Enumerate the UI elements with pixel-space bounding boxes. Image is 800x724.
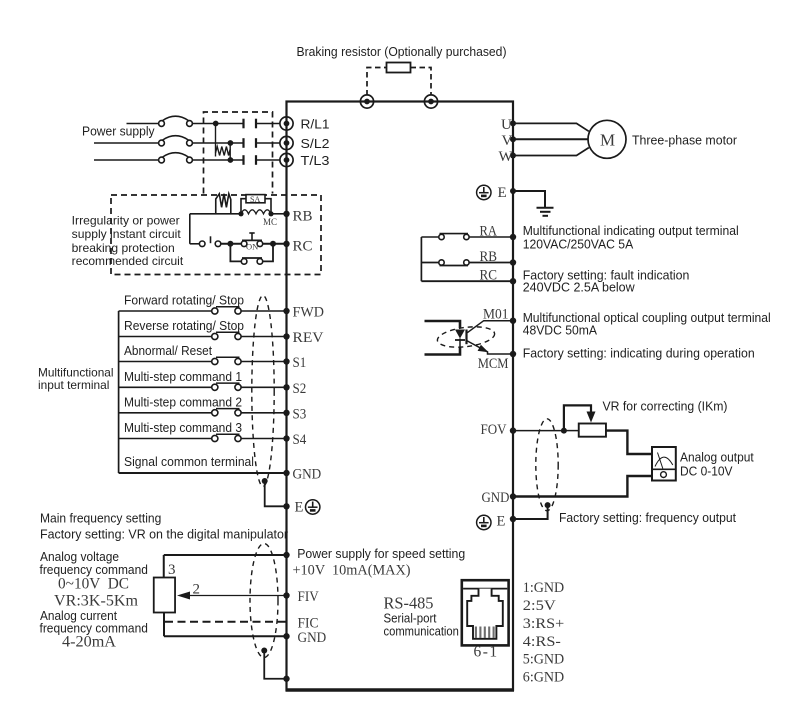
wire pot top [163, 555, 165, 578]
node coil left [238, 211, 243, 216]
svg-text:S4: S4 [293, 432, 307, 448]
wire RB out [421, 262, 513, 264]
wire RA [421, 236, 513, 238]
terminal RC out dot [510, 278, 516, 284]
irregularity protection dashed box [111, 195, 321, 275]
terminal R/L1 [280, 117, 293, 130]
wire RC start [190, 243, 200, 245]
terminal REV [283, 333, 289, 339]
svg-text:Factory setting: frequency out: Factory setting: frequency output [559, 511, 737, 525]
terminal U dot [510, 120, 516, 126]
switch FWD [119, 307, 287, 314]
wire shield FOV to E [513, 505, 548, 519]
breaker pole 2 [159, 136, 193, 146]
wire dashed braking left [367, 68, 387, 96]
svg-text:Abnormal/ Reset: Abnormal/ Reset [124, 344, 212, 358]
motor M [588, 120, 626, 158]
svg-text:FWD: FWD [293, 305, 325, 321]
svg-text:RA: RA [480, 224, 498, 240]
svg-text:R/L1: R/L1 [301, 118, 330, 132]
wire dashed braking right [411, 68, 432, 96]
svg-text:Irregularity or power: Irregularity or power [72, 214, 180, 228]
svg-text:2:5V: 2:5V [523, 598, 556, 614]
svg-text:RC: RC [293, 239, 313, 255]
svg-text:4:RS-: 4:RS- [523, 634, 561, 650]
svg-text:E: E [295, 500, 304, 516]
contactor MC contact 2 [244, 138, 257, 148]
svg-text:Multi-step command 1: Multi-step command 1 [124, 370, 242, 384]
phototransistor bar [465, 330, 467, 345]
node RC right junction [270, 241, 276, 247]
svg-text:Signal common terminal: Signal common terminal [124, 455, 254, 469]
protective earth symbol bottom right [477, 515, 491, 529]
contactor MC contact 1 [244, 119, 257, 129]
node RC left junction [227, 241, 233, 247]
wire phase R to contact [192, 123, 242, 125]
svg-text:4-20mA: 4-20mA [62, 634, 117, 651]
relay output bracket wire [420, 237, 422, 281]
svg-text:U: U [501, 117, 512, 133]
contactor MC contact 3 [244, 155, 257, 165]
svg-text:VR:3K-5Km: VR:3K-5Km [54, 593, 138, 610]
optocoupler texts [523, 311, 771, 361]
breaker pole 1 [159, 116, 193, 126]
VR adjust arrowhead [587, 412, 596, 423]
terminal PR (braking right) [424, 95, 437, 108]
svg-text:Multifunctional indicating out: Multifunctional indicating output termin… [523, 224, 739, 238]
svg-text:Serial-port: Serial-port [384, 612, 437, 626]
svg-text:communication: communication [384, 625, 459, 639]
wire contact2 to S/L2 [256, 142, 280, 144]
wire E to earth [513, 191, 545, 208]
resistor snubber [216, 147, 231, 156]
svg-text:V: V [502, 133, 513, 149]
terminal FWD [283, 308, 289, 314]
node S junction [228, 140, 234, 146]
svg-text:FIV: FIV [298, 589, 319, 605]
wire V [513, 138, 588, 140]
svg-text:Multi-step command 3: Multi-step command 3 [124, 421, 242, 435]
terminal V dot [510, 136, 516, 142]
contact RA (NO) [439, 234, 469, 240]
svg-text:MCM: MCM [478, 356, 509, 372]
svg-text:Three-phase motor: Three-phase motor [632, 134, 737, 148]
svg-text:+10V 10mA(MAX): +10V 10mA(MAX) [293, 563, 411, 579]
terminal S/L2 [280, 136, 293, 149]
svg-text:1:GND: 1:GND [523, 580, 565, 596]
contact MC holding (NO) [241, 258, 262, 264]
svg-text:0~10V DC: 0~10V DC [58, 576, 129, 593]
wire pot bottom [163, 613, 165, 637]
svg-text:S2: S2 [293, 381, 307, 397]
optocoupler dashed ellipse [436, 324, 496, 350]
wire FIV wiper arrow [189, 595, 287, 597]
input box left bus [118, 311, 120, 473]
terminal W dot [510, 153, 516, 159]
contactor dashed box [204, 112, 273, 194]
svg-text:48VDC 50mA: 48VDC 50mA [523, 324, 598, 338]
switch REV [119, 332, 287, 339]
svg-text:Braking resistor (Optionally p: Braking resistor (Optionally purchased) [297, 45, 507, 59]
terminal MCM dot [510, 351, 516, 357]
svg-text:RC: RC [480, 268, 498, 284]
svg-text:Reverse rotating/ Stop: Reverse rotating/ Stop [124, 319, 244, 333]
shield ellipse FOV [536, 419, 558, 511]
terminal S3 [283, 410, 289, 416]
wire ON to RC [263, 243, 287, 245]
switch S2 [119, 383, 287, 390]
svg-text:240VDC 2.5A below: 240VDC 2.5A below [523, 281, 636, 295]
svg-text:E: E [497, 513, 506, 529]
wire common vertical [189, 214, 191, 244]
svg-text:Power supply for speed setting: Power supply for speed setting [297, 547, 465, 561]
svg-text:6:GND: 6:GND [523, 670, 565, 686]
svg-text:6-1: 6-1 [474, 644, 499, 661]
wire MC coil left [190, 213, 241, 215]
node coil right [268, 211, 273, 216]
RJ11 pins [476, 627, 494, 639]
svg-text:T/L3: T/L3 [301, 154, 330, 168]
node shield analog [261, 648, 267, 654]
LED lead bottom [425, 347, 461, 355]
multifunctional input terminal label [38, 366, 114, 393]
svg-text:S1: S1 [293, 355, 307, 371]
wire U [513, 123, 589, 131]
wire shield analog to box [264, 651, 286, 679]
wire M01 [467, 321, 513, 333]
RS-485 labels [384, 594, 459, 639]
terminal RA dot [510, 234, 516, 240]
node shield input [262, 478, 268, 484]
svg-text:Main frequency setting: Main frequency setting [40, 512, 161, 526]
terminal +10V [283, 552, 289, 558]
terminal E left [283, 503, 289, 509]
svg-text:MC: MC [263, 217, 277, 227]
meter analog output [652, 447, 676, 481]
svg-text:120VAC/250VAC 5A: 120VAC/250VAC 5A [523, 237, 634, 251]
breaker pole 3 [159, 153, 193, 163]
svg-text:Power supply: Power supply [82, 125, 155, 139]
emitter wire with arrow [467, 341, 514, 355]
svg-text:3:RS+: 3:RS+ [523, 616, 564, 632]
svg-text:Factory setting: indicating du: Factory setting: indicating during opera… [523, 347, 755, 361]
wire GND to meter [513, 476, 652, 497]
wire phase T [94, 159, 159, 161]
terminal GND [283, 470, 289, 476]
wire to ON node [221, 243, 241, 245]
svg-text:GND: GND [293, 467, 322, 483]
wire phase S [94, 142, 159, 144]
contact RB (NC) [439, 260, 469, 266]
LED lead top [425, 321, 461, 328]
wire contact3 to T/L3 [256, 159, 280, 161]
svg-text:E: E [498, 185, 507, 201]
node FOV junction [561, 428, 567, 434]
wire +10V [164, 554, 287, 556]
shield ellipse analog [250, 544, 278, 658]
irregularity text [72, 214, 184, 268]
wire MC holding branch [230, 244, 273, 262]
wire FOV [513, 430, 564, 432]
terminal S2 [283, 384, 289, 390]
svg-text:GND: GND [482, 490, 510, 506]
svg-text:M01: M01 [483, 307, 509, 323]
potentiometer VR2 [579, 424, 606, 437]
svg-text:S3: S3 [293, 406, 307, 422]
protective earth symbol right [477, 185, 491, 199]
protective earth symbol left [306, 500, 320, 514]
svg-text:W: W [499, 149, 514, 165]
shield ellipse input [252, 296, 274, 487]
wire GND common [119, 472, 287, 474]
svg-text:GND: GND [298, 630, 327, 646]
wire contact1 to R/L1 [256, 123, 280, 125]
node shield at box [283, 676, 289, 682]
svg-text:RB: RB [293, 209, 313, 225]
wire pot to meter [606, 431, 652, 454]
svg-text:5:GND: 5:GND [523, 652, 565, 668]
pushbutton OFF (NC) [199, 236, 220, 246]
svg-text:Multi-step command 2: Multi-step command 2 [124, 395, 242, 409]
RJ11 pin list [523, 580, 565, 686]
svg-text:supply instant circuit: supply instant circuit [72, 227, 182, 241]
terminal E bottom right dot [510, 516, 516, 522]
wire phase T to contact [192, 159, 242, 161]
wire SA branch [241, 199, 271, 214]
relay output texts [523, 224, 739, 295]
svg-text:breaking protection: breaking protection [72, 241, 175, 255]
wire GND analog [164, 635, 287, 637]
svg-text:input terminal: input terminal [38, 378, 109, 392]
VR adjust wire [564, 405, 591, 430]
terminal T/L3 [280, 153, 293, 166]
LED diode [455, 330, 465, 348]
wire phase R [127, 123, 159, 125]
terminal GND analog [283, 633, 289, 639]
wire FOV to pot [564, 430, 579, 432]
pushbutton ON (NO) [241, 233, 262, 247]
terminal P (braking left) [360, 95, 373, 108]
resistor dropper (to MC coil) [216, 194, 231, 214]
svg-text:RB: RB [480, 249, 498, 265]
switch S3 [119, 409, 287, 416]
terminal RC dot [283, 241, 289, 247]
surge absorber SA [246, 195, 265, 203]
node T junction [228, 157, 234, 163]
svg-text:2: 2 [193, 582, 201, 598]
inverter main box U1 [286, 102, 515, 691]
svg-text:RS-485: RS-485 [384, 594, 434, 613]
terminal E right dot [510, 188, 516, 194]
svg-text:Forward rotating/ Stop: Forward rotating/ Stop [124, 294, 244, 308]
wire snubber vertical S-T [229, 143, 231, 160]
wire phase S to contact [192, 142, 242, 144]
svg-text:VR for correcting (IKm): VR for correcting (IKm) [603, 400, 728, 414]
braking resistor BR [387, 63, 411, 73]
svg-text:S/L2: S/L2 [301, 137, 330, 151]
inductor MC coil [241, 210, 271, 214]
svg-text:SA: SA [250, 195, 260, 204]
potentiometer VR1 [154, 578, 175, 613]
wire FIC dashed [165, 621, 287, 623]
svg-text:ON: ON [246, 241, 258, 251]
wire shield to E [265, 481, 287, 506]
terminal S1 [283, 358, 289, 364]
svg-text:REV: REV [293, 330, 325, 346]
svg-text:recommended circuit: recommended circuit [72, 254, 184, 268]
RJ11 connector 6-1 [462, 580, 509, 660]
wire W [513, 148, 589, 156]
node shield FOV [545, 502, 551, 508]
terminal GND right dot [510, 493, 516, 499]
wire RC out [421, 280, 513, 282]
wire snubber vertical from R [215, 124, 217, 157]
main frequency setting text [40, 512, 289, 651]
terminal S4 [283, 435, 289, 441]
ground earth symbol [537, 208, 554, 216]
switch S1 [119, 357, 287, 364]
svg-text:DC 0-10V: DC 0-10V [680, 465, 733, 479]
svg-text:FOV: FOV [481, 422, 508, 438]
wire coil to RB [271, 213, 287, 215]
svg-text:Analog output: Analog output [680, 451, 754, 465]
labels speed setting terminals [293, 547, 466, 646]
terminal FOV dot [510, 427, 516, 433]
node R junction [213, 121, 219, 127]
svg-text:M: M [600, 130, 615, 149]
terminal M01 dot [510, 318, 516, 324]
svg-text:Analog voltage: Analog voltage [40, 550, 119, 564]
switch S4 [119, 434, 287, 441]
svg-text:3: 3 [168, 562, 176, 578]
terminal FIV [283, 592, 289, 598]
meter texts [680, 451, 754, 479]
svg-text:Factory setting: VR on the dig: Factory setting: VR on the digital manip… [40, 528, 288, 542]
terminal RB dot [283, 211, 289, 217]
terminal RB out dot [510, 259, 516, 265]
